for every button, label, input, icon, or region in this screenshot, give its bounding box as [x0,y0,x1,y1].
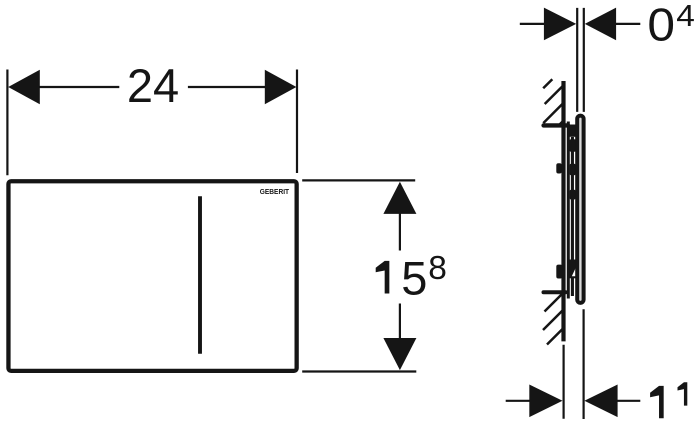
side view: rear fixing lug bottom [556,265,562,279]
svg-text:4: 4 [676,0,695,33]
side view: clip block bottom notch [572,265,577,276]
dimension 158: top arrowhead [383,182,416,214]
side view: wall hatch bottom stroke 1 [545,294,563,312]
dimension 158: bottom arrowhead [383,338,416,370]
dimension 04: line right segment [616,23,641,25]
side view: latch bump mid [570,190,576,200]
dimension 158: line top segment [399,213,401,251]
svg-text:5: 5 [401,252,427,305]
side view: frame head block [567,125,576,137]
dimension 11: line left segment [506,400,530,402]
dimension 04: right extension line [583,8,585,112]
dimension 11: left extension line [562,345,564,419]
side view: wall hatch top stroke 2 [545,86,563,104]
side view: clip block top [569,139,576,151]
side view: latch bump upper [570,164,576,175]
dimension 158: bottom extension line [302,370,416,372]
dimension 24: right extension line [296,70,298,174]
dimension 24: line right segment [188,86,266,88]
dimension 11: right extension line [582,309,584,419]
dimension 24: right arrowhead [265,70,297,105]
side view: niche bottom edge [544,290,566,294]
svg-text:0: 0 [647,0,675,51]
side view: clip block bottom [569,260,577,279]
side view: wall hatch bottom stroke 2 [543,311,562,330]
side view: rear fixing lug top [556,163,561,173]
side view: mounting frame rail front [571,137,574,296]
dimension 11: line right segment [617,400,640,402]
svg-text:GEBERIT: GEBERIT [260,189,290,196]
dimension 158: label digit 1 [376,261,390,294]
dimension 04: left extension line [576,8,578,112]
svg-text:24: 24 [127,59,179,112]
dimension 24: line left segment [39,86,119,88]
dimension 04: right arrowhead [585,8,616,41]
dimension 11: left arrowhead [529,385,562,418]
dimension 11: right arrowhead [584,385,617,418]
front view: dual-flush split line [198,196,202,354]
dimension 158: line bottom segment [399,304,401,339]
dimension 24: left arrowhead [8,70,40,105]
side view: niche top edge [544,123,568,127]
side view: wall line [561,81,565,341]
side view: wall hatch bottom stroke 3 [547,329,562,344]
side view: plate profile [577,116,583,303]
dimension 24: left extension line [6,70,8,176]
dimension 11: label main 1 [650,386,664,418]
side view: mounting frame rail rear [567,122,570,299]
dimension 158: top extension line [302,179,415,181]
dimension 11: label superscript 1 [678,382,688,405]
side view: wall hatch top stroke 4 [560,120,564,124]
side view: wall hatch top stroke 3 [543,104,562,123]
svg-text:8: 8 [428,250,447,287]
dimension 04: line left segment [520,23,545,25]
side view: wall hatch top stroke 1 [543,79,552,88]
front view: flush plate outline [8,181,296,371]
dimension 04: left arrowhead [544,8,576,41]
